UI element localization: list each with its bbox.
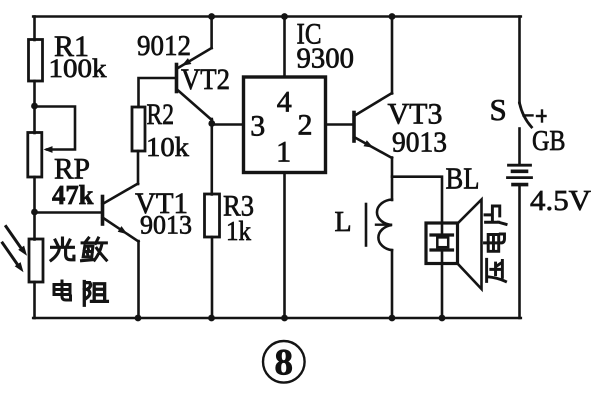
node IC pin 1 at bottom rail <box>281 315 288 322</box>
wire VT1 emitter to bottom rail <box>137 241 140 318</box>
label IC <box>297 18 322 51</box>
label 100k <box>49 54 107 83</box>
svg-text:100k: 100k <box>49 54 107 83</box>
wire VT3 emitter node to speaker BL <box>392 177 442 223</box>
svg-text:4.5V: 4.5V <box>530 185 591 217</box>
node R3 at bottom rail <box>208 315 215 322</box>
svg-text:GB: GB <box>532 125 566 157</box>
wire top rail to IC pin 4 <box>283 17 286 78</box>
pin 4 <box>277 85 292 118</box>
speaker BL cone <box>458 200 482 290</box>
svg-text:9300: 9300 <box>297 44 355 75</box>
label guang (light) char of photoresistor <box>51 238 74 260</box>
svg-text:2: 2 <box>298 109 313 142</box>
label dian (piezo) char rotated on speaker cone <box>485 234 505 251</box>
label VT2 <box>181 63 230 96</box>
label 1k <box>226 216 251 246</box>
wire node C to IC pin 3 <box>212 123 244 126</box>
node VT1 emitter at bottom rail <box>135 315 142 322</box>
wire battery to bottom rail <box>518 186 521 318</box>
wire RP wiper loop <box>35 107 76 153</box>
svg-text:8: 8 <box>275 343 294 384</box>
label pian (slice) char rotated on speaker cone <box>485 206 506 224</box>
speaker BL body <box>426 223 458 264</box>
label R3 <box>223 190 254 223</box>
label GB <box>532 125 566 157</box>
wire node B to VT1 base <box>35 211 103 214</box>
wire IC pin 2 to VT3 base <box>326 123 355 126</box>
wire R3 to bottom rail <box>211 237 214 318</box>
label S <box>490 92 507 127</box>
label 9013 of VT3 <box>392 128 447 159</box>
wire node A to RP <box>33 106 36 133</box>
node A <box>31 103 38 110</box>
svg-text:VT3: VT3 <box>388 98 443 131</box>
svg-text:9013: 9013 <box>140 211 192 240</box>
label R1 <box>54 30 89 63</box>
svg-text:9013: 9013 <box>392 128 447 159</box>
inductor L <box>366 200 392 251</box>
label 9300 <box>297 44 355 75</box>
wire VT2 collector to node C <box>211 119 214 124</box>
resistor R2 <box>132 107 145 151</box>
svg-text:3: 3 <box>250 109 265 142</box>
label 9012 <box>137 30 191 62</box>
svg-text:VT2: VT2 <box>181 63 230 96</box>
wire right rail top <box>518 17 521 104</box>
resistor R3 <box>205 194 220 237</box>
pin 2 <box>298 109 313 142</box>
wire R2 to VT2 base <box>139 78 177 107</box>
label L <box>335 207 352 238</box>
svg-text:10k: 10k <box>146 132 190 162</box>
label VT3 <box>388 98 443 131</box>
node VT3 collector at top rail <box>389 13 396 20</box>
wire L to bottom rail <box>391 250 394 318</box>
wire VT3 emitter down to inductor <box>391 158 394 201</box>
svg-text:9012: 9012 <box>137 30 191 62</box>
svg-text:47k: 47k <box>52 180 94 210</box>
label 9013 of VT1 <box>140 211 192 240</box>
wire photoresistor to bottom rail <box>33 282 36 318</box>
wire left rail top to R1 <box>33 17 36 41</box>
resistor R1 <box>29 40 43 82</box>
svg-text:4: 4 <box>277 85 292 118</box>
transistor VT1 <box>103 184 139 242</box>
label R2 <box>147 98 175 131</box>
pin 3 <box>250 109 265 142</box>
svg-text:1: 1 <box>276 135 291 168</box>
node IC pin 4 at top rail <box>281 13 288 20</box>
wire VT1 collector to R2 <box>137 151 140 184</box>
light arrow 2 <box>3 243 24 272</box>
label 10k <box>146 132 190 162</box>
piezo element plates inside BL <box>431 223 453 264</box>
svg-text:S: S <box>490 92 507 127</box>
node BL at bottom rail <box>439 315 446 322</box>
label RP <box>54 153 90 186</box>
wire R1 to node A <box>33 81 36 106</box>
label dian (electric) char of photoresistor <box>54 281 71 300</box>
label 4.5V <box>530 185 591 217</box>
node B <box>31 209 38 216</box>
svg-text:R2: R2 <box>147 98 175 131</box>
light arrow 1 <box>6 227 27 256</box>
node L at bottom rail <box>389 315 396 322</box>
photoresistor (light dependent resistor) <box>29 239 43 282</box>
wire switch to battery <box>518 129 521 165</box>
label BL <box>446 161 480 196</box>
node VT2 emitter at top rail <box>208 13 215 20</box>
pin 1 <box>276 135 291 168</box>
wire RP to node B <box>33 177 36 212</box>
switch S blade <box>520 103 546 127</box>
battery GB <box>508 165 532 184</box>
label zu (resist) char of photoresistor <box>84 282 107 306</box>
svg-text:1k: 1k <box>226 216 251 246</box>
svg-text:L: L <box>335 207 352 238</box>
wire node B to photoresistor <box>33 212 36 240</box>
wire VT3 collector to top rail <box>391 17 394 94</box>
wire node C to R3 <box>211 124 214 195</box>
potentiometer RP <box>28 133 42 178</box>
label 47k <box>52 180 94 210</box>
label ya (piezo) char rotated on speaker cone <box>487 259 506 281</box>
label min (sensitive) char of photoresistor <box>82 238 107 261</box>
transistor VT3 <box>354 93 392 158</box>
transistor VT2 <box>177 17 212 121</box>
wire IC pin 1 to bottom rail <box>283 173 286 319</box>
figure number circle 8 <box>263 341 305 384</box>
op-amp IC 9300 box <box>244 77 326 173</box>
wire bottom rail <box>33 317 521 320</box>
node C <box>208 120 215 127</box>
wire top rail <box>33 15 521 18</box>
label VT1 <box>135 187 188 220</box>
wire BL to bottom rail <box>441 264 444 319</box>
svg-text:BL: BL <box>446 161 480 196</box>
